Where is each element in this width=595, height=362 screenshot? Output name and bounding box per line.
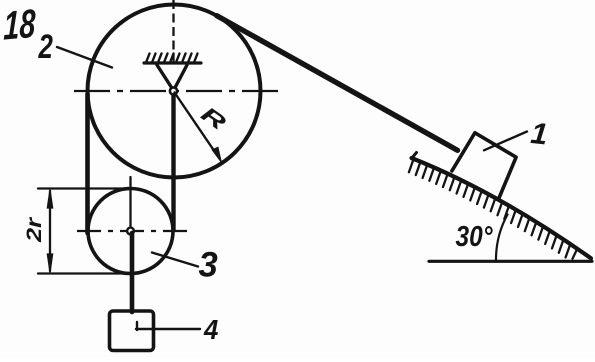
label 3 leader	[152, 253, 198, 267]
figure number 18	[3, 2, 36, 49]
label 2 leader	[57, 47, 112, 68]
label 4 leader	[136, 322, 200, 330]
base line of incline	[429, 260, 592, 263]
svg-text:2: 2	[38, 29, 53, 66]
incline start hook	[412, 153, 417, 159]
left rope from pulley 2 down to pulley 3	[85, 94, 90, 233]
label 3	[199, 245, 219, 285]
vertical centerline above pulley 2	[172, 0, 174, 62]
rope from pulley 3 axle to weight 4	[130, 233, 135, 312]
pulley 3 (small, diameter 2r)	[88, 189, 173, 274]
weight block 4	[110, 311, 154, 351]
radius R arrow	[175, 93, 218, 156]
vertical centerline of pulley 3	[129, 177, 131, 234]
horizontal centerline of pulley 2	[74, 90, 284, 92]
incline surface line	[412, 158, 592, 258]
axle pivot of pulley 3	[127, 228, 134, 235]
dimension extension line top (2r)	[38, 187, 131, 189]
axle pivot of pulley 2	[170, 87, 177, 94]
svg-text:2r: 2r	[23, 216, 46, 243]
svg-text:3: 3	[199, 245, 219, 285]
30 degree angle arc	[496, 215, 508, 262]
label 30deg	[456, 221, 493, 253]
pulley 2 (large, radius R)	[88, 5, 261, 178]
svg-text:30°: 30°	[456, 221, 493, 253]
dimension line 2r with arrows	[49, 191, 51, 271]
label 1	[529, 117, 549, 152]
svg-text:18: 18	[3, 2, 36, 49]
label 2r (rotated)	[23, 216, 46, 243]
svg-text:R: R	[197, 102, 231, 135]
rope from pulley 2 to block 1 on incline	[217, 16, 458, 151]
svg-text:4: 4	[203, 314, 218, 345]
ceiling hatching	[146, 54, 198, 63]
svg-text:1: 1	[529, 117, 549, 152]
horizontal centerline of pulley 3	[77, 230, 187, 232]
support bracket triangle	[157, 65, 187, 91]
ceiling line	[144, 61, 201, 64]
label 1 leader	[484, 132, 527, 151]
block 1 on incline	[452, 133, 516, 199]
label R	[197, 102, 231, 135]
incline hatching	[409, 159, 577, 259]
anchor rope from axle down to pulley 3	[171, 92, 175, 231]
label 2	[38, 29, 53, 66]
dimension extension line bottom (2r)	[38, 272, 131, 274]
label 4	[203, 314, 218, 345]
